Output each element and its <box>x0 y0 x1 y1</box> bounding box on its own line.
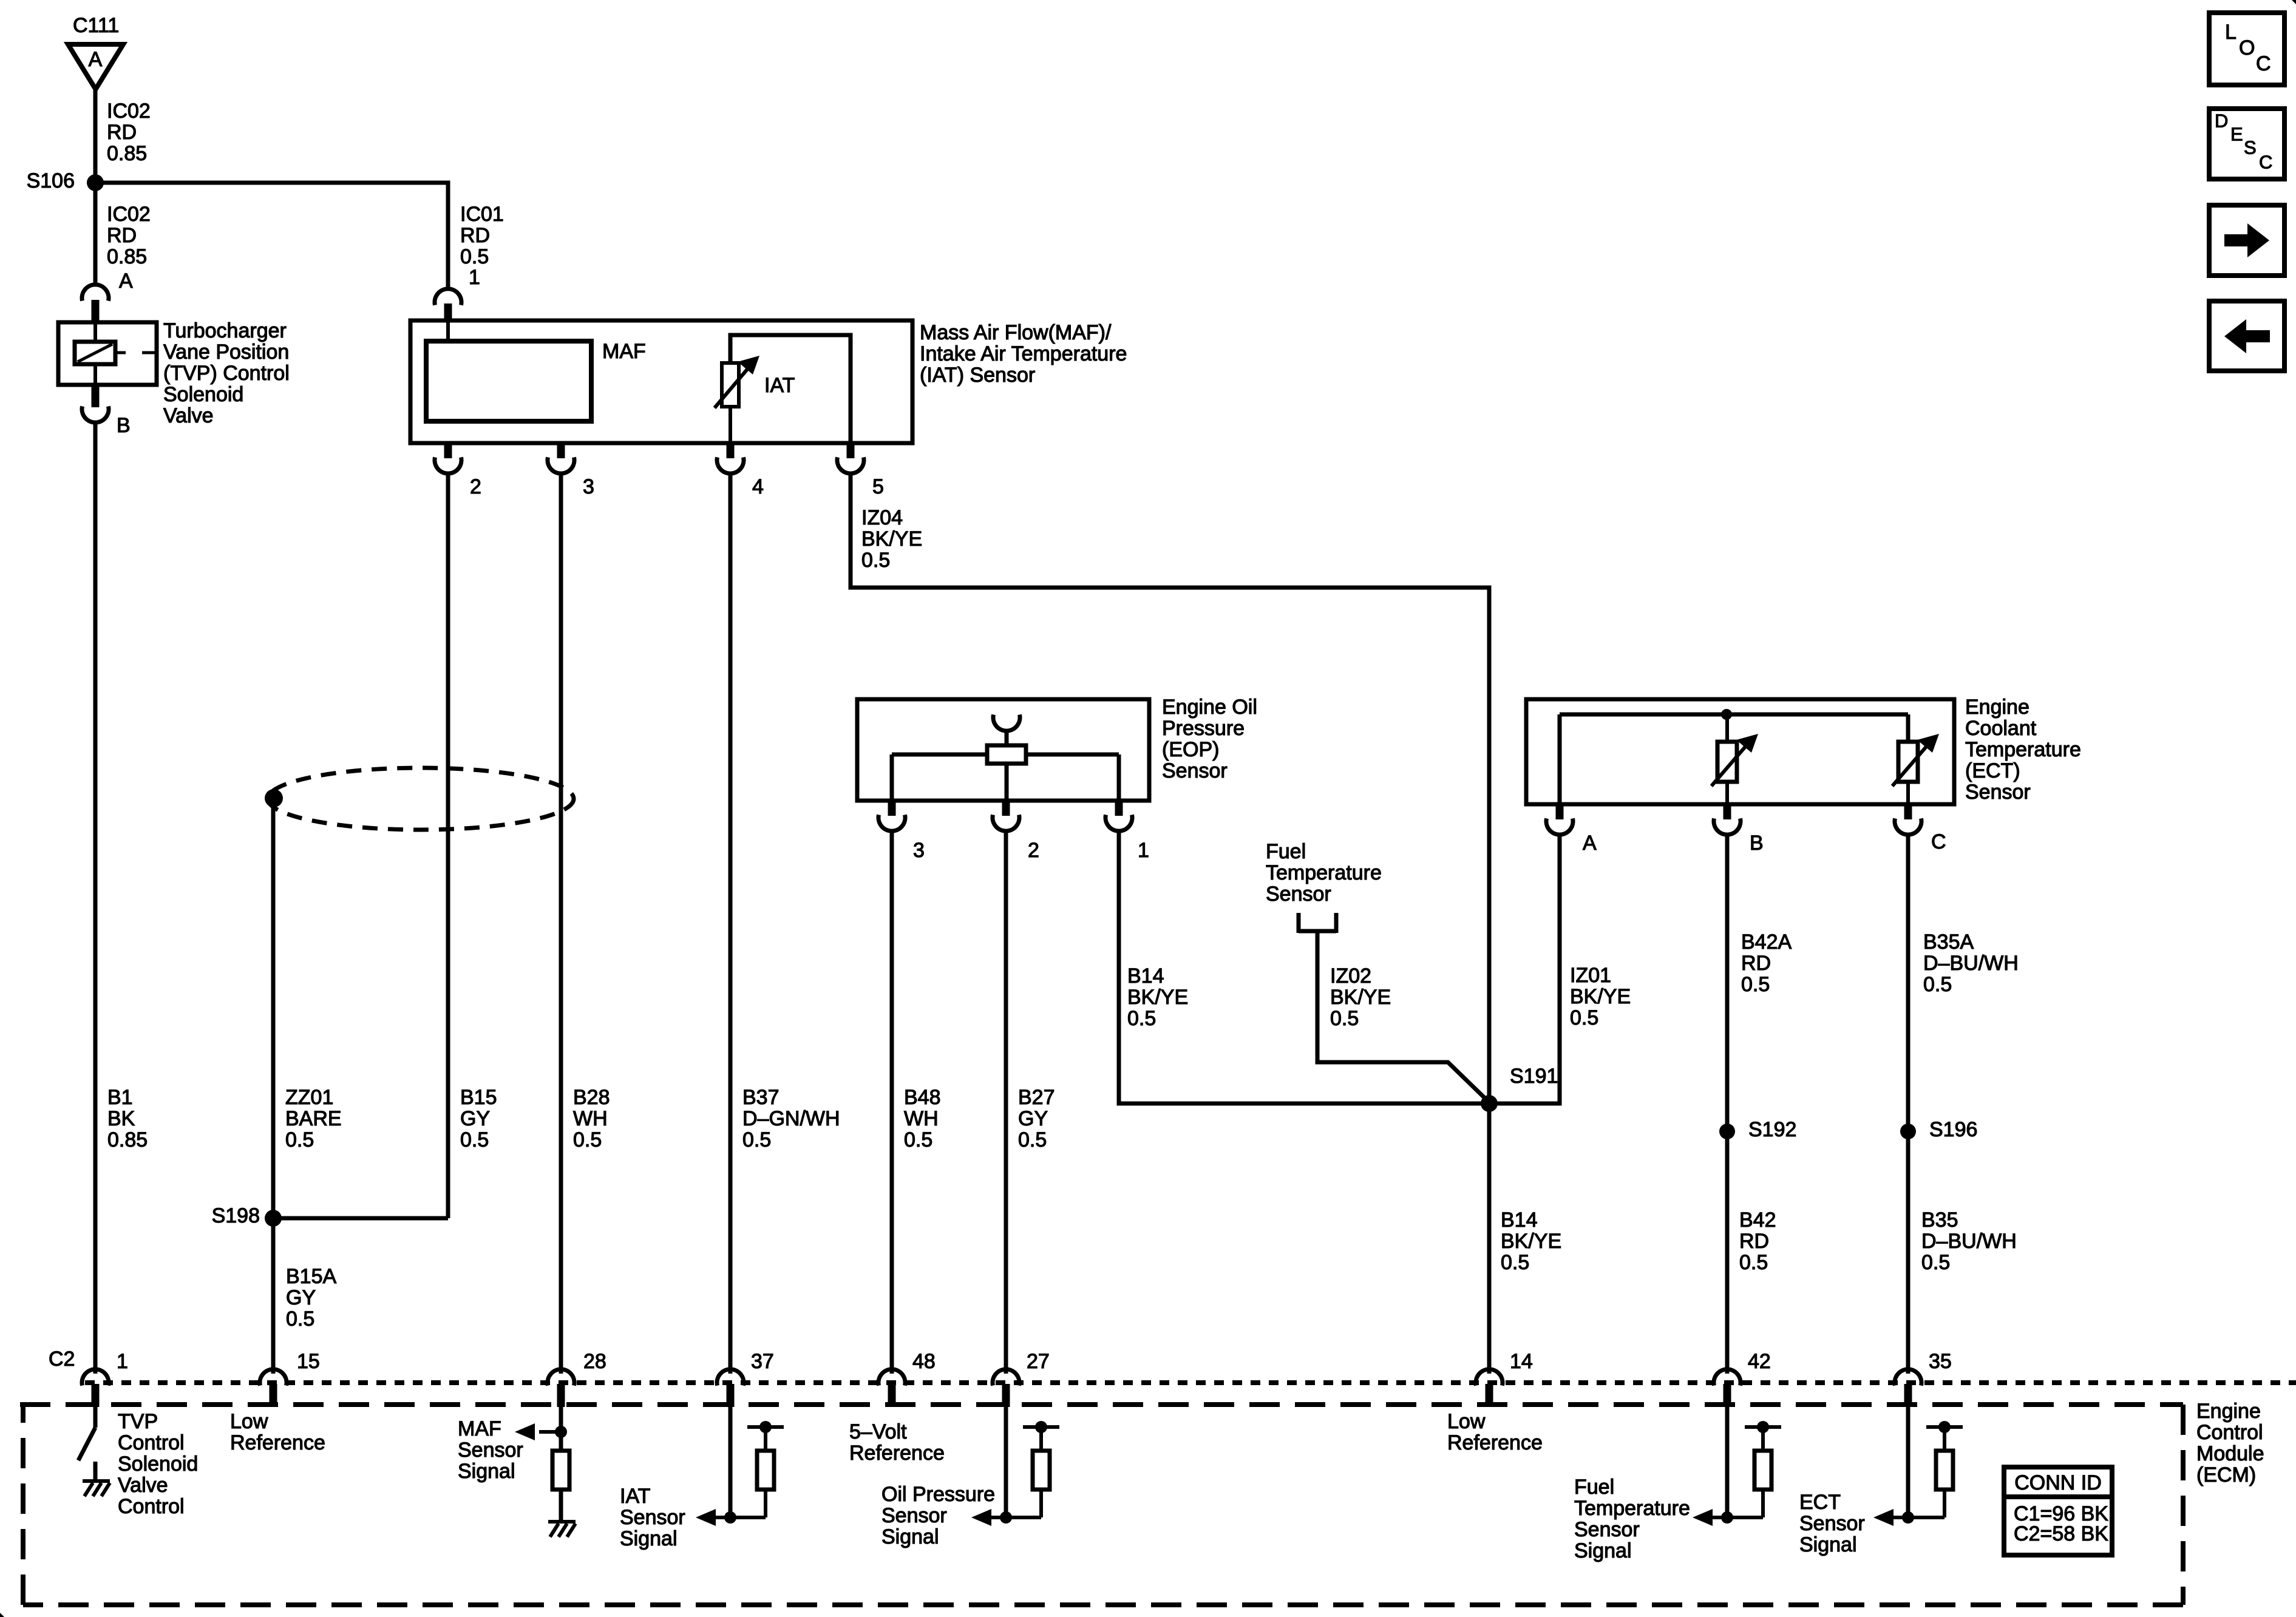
label IZ04 BK/YE 0.5 <box>861 506 922 572</box>
pin 3 of MAF sensor <box>548 443 594 498</box>
ECM pin 15 terminal <box>260 1350 320 1407</box>
ECM ECT signal wire <box>1906 1407 1911 1517</box>
svg-text:0.5: 0.5 <box>285 1128 314 1151</box>
label MAF Sensor Signal <box>458 1417 523 1483</box>
svg-text:Coolant: Coolant <box>1965 717 2037 740</box>
svg-text:S: S <box>2244 137 2257 158</box>
svg-text:TVP: TVP <box>118 1410 158 1433</box>
svg-text:Temperature: Temperature <box>1574 1497 1690 1520</box>
svg-text:4: 4 <box>752 475 764 498</box>
label B28 WH 0.5 <box>573 1086 610 1151</box>
svg-text:BK/YE: BK/YE <box>1501 1230 1561 1253</box>
svg-text:C111: C111 <box>73 14 119 37</box>
svg-text:Fuel: Fuel <box>1574 1476 1614 1499</box>
resistor fuel temp pull-up <box>1693 1421 1781 1526</box>
pin 1 of MAF sensor <box>435 266 480 320</box>
label C2 <box>49 1347 75 1371</box>
label IC02 RD 0.85 lower <box>107 203 151 268</box>
label IC01 RD 0.5 <box>460 203 504 268</box>
label B14 BK/YE 0.5 lower <box>1501 1209 1561 1274</box>
resistor oil pressure pull-up <box>971 1421 1059 1526</box>
pin B of ECT sensor <box>1714 804 1764 855</box>
label Oil Pressure Sensor Signal <box>881 1483 995 1548</box>
svg-text:C2=58 BK: C2=58 BK <box>2014 1522 2108 1545</box>
svg-text:Signal: Signal <box>881 1525 939 1548</box>
svg-text:B42: B42 <box>1739 1209 1776 1232</box>
ECM pin 35 terminal <box>1895 1350 1952 1407</box>
svg-text:Reference: Reference <box>849 1442 945 1465</box>
ECM pin 28 terminal <box>548 1350 606 1407</box>
label Low Reference (pin 14) <box>1447 1410 1543 1454</box>
icon LOC box <box>2209 13 2284 85</box>
svg-text:Solenoid: Solenoid <box>118 1453 198 1476</box>
wire B28 MAF pin 3 to ECM pin 28 <box>559 473 563 1374</box>
svg-text:Sensor: Sensor <box>1574 1518 1640 1541</box>
svg-text:1: 1 <box>469 266 480 289</box>
svg-text:Oil Pressure: Oil Pressure <box>881 1483 995 1506</box>
shield ellipse (twisted pair) <box>268 768 574 830</box>
svg-text:S198: S198 <box>212 1204 260 1227</box>
ground chassis (MAF load) <box>548 1490 576 1537</box>
svg-text:D–GN/WH: D–GN/WH <box>742 1107 840 1130</box>
pin A of ECT sensor <box>1546 804 1597 855</box>
svg-text:RD: RD <box>107 121 137 144</box>
shield drain connection dot <box>265 789 283 807</box>
svg-text:27: 27 <box>1027 1350 1050 1373</box>
wire B37 MAF pin 4 to ECM pin 37 <box>729 473 733 1374</box>
sensor EOP box <box>857 699 1149 801</box>
thermistor IAT <box>715 335 851 443</box>
svg-text:(IAT) Sensor: (IAT) Sensor <box>920 364 1035 387</box>
svg-text:IC02: IC02 <box>107 203 151 226</box>
icon back arrow box <box>2209 301 2284 371</box>
svg-text:ZZ01: ZZ01 <box>285 1086 333 1109</box>
wire B35A ECT pin C to ECM pin 35 <box>1906 834 1911 1374</box>
svg-text:Vane Position: Vane Position <box>163 341 289 364</box>
svg-text:D–BU/WH: D–BU/WH <box>1923 952 2019 975</box>
sensor ECT box <box>1526 699 1954 804</box>
svg-text:1: 1 <box>117 1350 128 1373</box>
label B37 D-GN/WH 0.5 <box>742 1086 840 1151</box>
ECM oil pressure signal wire <box>1004 1407 1008 1517</box>
svg-text:Reference: Reference <box>1447 1431 1543 1454</box>
svg-text:BARE: BARE <box>285 1107 342 1130</box>
ECM pin 27 terminal <box>993 1350 1050 1407</box>
icon forward arrow box <box>2209 205 2284 276</box>
svg-text:RD: RD <box>1739 1230 1769 1253</box>
wire B14 S191 to ECM pin 14 <box>1487 1103 1492 1374</box>
svg-text:C: C <box>1931 830 1946 853</box>
svg-text:BK/YE: BK/YE <box>861 527 922 551</box>
label B15A GY 0.5 <box>286 1265 336 1331</box>
resistor MAF load <box>552 1451 569 1490</box>
label Engine Oil Pressure (EOP) Sensor <box>1162 696 1257 782</box>
ECM pin 1 terminal <box>82 1350 128 1407</box>
svg-text:Sensor: Sensor <box>1266 883 1331 906</box>
svg-text:GY: GY <box>1018 1107 1048 1130</box>
EOP pressure port symbol <box>993 714 1020 745</box>
svg-text:RD: RD <box>1741 952 1771 975</box>
svg-text:A: A <box>119 269 133 293</box>
label B35 D-BU/WH 0.5 <box>1921 1209 2017 1274</box>
label 5-Volt Reference <box>849 1420 945 1465</box>
svg-text:A: A <box>1583 832 1597 855</box>
svg-text:0.5: 0.5 <box>460 1128 489 1151</box>
svg-text:2: 2 <box>1028 839 1039 862</box>
svg-text:(EOP): (EOP) <box>1162 738 1219 761</box>
svg-text:B37: B37 <box>742 1086 779 1109</box>
ECT internal junction <box>1721 709 1732 720</box>
node MAF signal junction <box>555 1426 567 1438</box>
ECM MAF signal wire <box>559 1407 563 1451</box>
svg-text:BK/YE: BK/YE <box>1127 986 1188 1009</box>
pin 3 of EOP sensor <box>878 801 925 862</box>
pin 5 of MAF sensor <box>837 443 884 498</box>
wire IC02 C111 to S106 <box>93 89 98 183</box>
svg-text:Signal: Signal <box>1574 1539 1632 1562</box>
svg-text:0.5: 0.5 <box>1921 1251 1950 1274</box>
svg-text:Signal: Signal <box>1799 1533 1857 1556</box>
wire ZZ01 shield to S198 <box>271 798 276 1218</box>
svg-text:0.5: 0.5 <box>1923 973 1952 996</box>
svg-text:35: 35 <box>1929 1350 1952 1373</box>
ECM TVP driver switch <box>78 1407 95 1460</box>
wire B27 EOP pin 2 to ECM pin 27 <box>1004 830 1008 1374</box>
resistor ECT pull-up <box>1873 1421 1963 1526</box>
svg-text:Low: Low <box>230 1410 268 1433</box>
wire IC01 S106 to MAF pin 1 <box>95 183 448 290</box>
svg-text:Control: Control <box>118 1495 185 1518</box>
label IZ01 BK/YE 0.5 <box>1570 964 1631 1029</box>
svg-text:B48: B48 <box>904 1086 941 1109</box>
svg-text:B35: B35 <box>1921 1209 1958 1232</box>
pin 4 of MAF sensor <box>717 443 764 498</box>
ECM dashed box <box>20 1405 2183 1605</box>
svg-text:B: B <box>117 414 131 437</box>
svg-text:Solenoid: Solenoid <box>163 383 243 406</box>
svg-text:Low: Low <box>1447 1410 1486 1433</box>
svg-text:Intake Air Temperature: Intake Air Temperature <box>920 342 1127 365</box>
label Fuel Temperature Sensor <box>1266 840 1382 906</box>
svg-text:Sensor: Sensor <box>458 1439 523 1462</box>
EOP sensing element <box>892 745 1119 801</box>
label B35A D-BU/WH 0.5 <box>1923 931 2019 996</box>
wire IC02 S106 to TVP pin A <box>93 183 98 285</box>
pin 2 of MAF sensor <box>435 443 481 498</box>
svg-text:IAT: IAT <box>764 374 795 397</box>
wire S198 to B15 column <box>273 1216 448 1221</box>
ECM pin 37 terminal <box>717 1350 774 1407</box>
label B42A RD 0.5 <box>1741 931 1792 996</box>
splice S192 <box>1719 1118 1796 1141</box>
svg-text:0.5: 0.5 <box>1570 1006 1598 1029</box>
svg-text:B28: B28 <box>573 1086 610 1109</box>
sensor Fuel Temperature symbol <box>1299 913 1336 933</box>
svg-text:Engine: Engine <box>2196 1400 2261 1423</box>
svg-text:Turbocharger: Turbocharger <box>163 319 287 342</box>
svg-text:C: C <box>2259 152 2272 173</box>
label B14 BK/YE 0.5 upper <box>1127 964 1188 1030</box>
solenoid valve TVP box <box>58 322 157 385</box>
svg-text:0.85: 0.85 <box>107 142 147 165</box>
icon DESC box <box>2209 109 2284 179</box>
svg-text:0.5: 0.5 <box>1018 1128 1047 1151</box>
svg-text:(ECM): (ECM) <box>2196 1463 2256 1486</box>
svg-text:5: 5 <box>872 475 884 498</box>
label IAT Sensor Signal <box>620 1485 685 1550</box>
svg-text:5–Volt: 5–Volt <box>849 1420 907 1443</box>
svg-text:2: 2 <box>470 475 481 498</box>
resistor IAT pull-up <box>696 1421 784 1526</box>
wire IZ01 ECT pin A to S191 <box>1489 834 1560 1103</box>
svg-text:0.5: 0.5 <box>861 549 890 572</box>
ECM pin 42 terminal <box>1714 1350 1771 1407</box>
svg-text:IC01: IC01 <box>460 203 504 226</box>
svg-text:RD: RD <box>460 224 490 247</box>
svg-text:B15A: B15A <box>286 1265 336 1288</box>
svg-text:Sensor: Sensor <box>881 1504 947 1527</box>
svg-text:0.5: 0.5 <box>573 1128 602 1151</box>
svg-text:0.85: 0.85 <box>107 245 147 268</box>
pin A of TVP solenoid <box>82 269 133 322</box>
label IC02 RD 0.85 upper <box>107 100 151 165</box>
svg-text:Valve: Valve <box>163 404 214 427</box>
svg-text:1: 1 <box>1138 839 1149 862</box>
arrow MAF sensor signal <box>515 1423 561 1440</box>
svg-text:S196: S196 <box>1929 1118 1977 1141</box>
svg-text:Reference: Reference <box>230 1431 325 1454</box>
svg-text:O: O <box>2239 36 2255 59</box>
wire B14 EOP pin 1 to S191 <box>1119 830 1489 1103</box>
thermistor ECT B <box>1711 714 1758 804</box>
svg-text:BK: BK <box>107 1107 135 1130</box>
svg-text:Signal: Signal <box>620 1527 678 1550</box>
label Turbocharger Vane Position (TVP) Control Solenoid Valve <box>163 319 290 427</box>
svg-text:Control: Control <box>118 1431 185 1454</box>
svg-text:37: 37 <box>751 1350 774 1373</box>
svg-text:0.5: 0.5 <box>904 1128 932 1151</box>
svg-text:0.5: 0.5 <box>1741 973 1770 996</box>
label Engine Coolant Temperature (ECT) Sensor <box>1965 696 2081 804</box>
svg-text:IZ02: IZ02 <box>1330 964 1371 988</box>
svg-text:Engine: Engine <box>1965 696 2029 719</box>
svg-text:15: 15 <box>297 1350 320 1373</box>
svg-text:(ECT): (ECT) <box>1965 759 2020 782</box>
svg-text:Sensor: Sensor <box>1162 759 1228 782</box>
svg-text:28: 28 <box>583 1350 606 1373</box>
connector C111 triangle symbol <box>68 44 123 89</box>
pin B of TVP solenoid <box>82 385 131 437</box>
svg-text:GY: GY <box>460 1107 490 1130</box>
svg-text:IC02: IC02 <box>107 100 151 123</box>
pin 1 of EOP sensor <box>1106 801 1149 862</box>
svg-text:(TVP) Control: (TVP) Control <box>163 362 290 385</box>
wire B1 TVP pin B to ECM pin 1 <box>93 422 98 1374</box>
svg-text:Sensor: Sensor <box>620 1506 685 1529</box>
svg-text:Module: Module <box>2196 1442 2264 1465</box>
svg-text:MAF: MAF <box>458 1417 501 1440</box>
svg-text:BK/YE: BK/YE <box>1330 986 1391 1009</box>
svg-text:0.5: 0.5 <box>460 245 489 268</box>
svg-text:IZ04: IZ04 <box>861 506 903 529</box>
ECM fuel temp signal wire <box>1725 1407 1730 1517</box>
splice S196 <box>1900 1118 1977 1141</box>
svg-text:MAF: MAF <box>602 340 646 363</box>
pin C of ECT sensor <box>1895 804 1946 853</box>
svg-text:3: 3 <box>583 475 594 498</box>
svg-text:IZ01: IZ01 <box>1570 964 1611 987</box>
ground chassis (TVP driver) <box>83 1462 110 1496</box>
svg-text:Temperature: Temperature <box>1266 861 1382 884</box>
wire B15A S198 to ECM pin 15 <box>271 1218 276 1374</box>
splice S191 <box>1481 1065 1558 1112</box>
label Engine Control Module (ECM) <box>2196 1400 2264 1486</box>
svg-text:0.85: 0.85 <box>107 1128 148 1151</box>
MAF element box <box>426 340 646 421</box>
svg-text:Valve: Valve <box>118 1474 168 1497</box>
svg-text:E: E <box>2230 124 2243 145</box>
svg-text:0.5: 0.5 <box>1739 1251 1768 1274</box>
svg-text:B35A: B35A <box>1923 931 1974 954</box>
svg-text:Sensor: Sensor <box>1965 781 2031 804</box>
ECM pin 14 terminal <box>1476 1350 1533 1407</box>
svg-text:GY: GY <box>286 1286 316 1309</box>
svg-text:Temperature: Temperature <box>1965 738 2081 761</box>
svg-text:0.5: 0.5 <box>1330 1007 1359 1030</box>
svg-text:Sensor: Sensor <box>1799 1512 1865 1535</box>
svg-text:0.5: 0.5 <box>286 1307 314 1331</box>
svg-text:CONN ID: CONN ID <box>2014 1471 2102 1494</box>
splice S106 <box>27 169 104 192</box>
label Low Reference (pin 15) <box>230 1410 325 1454</box>
svg-text:B1: B1 <box>107 1086 133 1109</box>
svg-text:0.5: 0.5 <box>742 1128 771 1151</box>
svg-text:Engine Oil: Engine Oil <box>1162 696 1257 719</box>
svg-text:ECT: ECT <box>1799 1491 1841 1514</box>
wire MAF pin2 internal <box>446 320 450 341</box>
svg-text:Control: Control <box>2196 1421 2263 1444</box>
wire B48 EOP pin 3 to ECM pin 48 <box>890 830 894 1374</box>
connector C2 dotted line <box>85 1380 2296 1385</box>
label Fuel Temperature Sensor Signal <box>1574 1476 1690 1562</box>
label B42 RD 0.5 <box>1739 1209 1776 1274</box>
svg-text:C2: C2 <box>49 1347 75 1371</box>
thermistor ECT C <box>1892 714 1939 804</box>
splice S198 <box>212 1204 282 1227</box>
svg-text:B14: B14 <box>1127 964 1164 988</box>
svg-text:42: 42 <box>1748 1350 1771 1373</box>
svg-text:B: B <box>1750 832 1764 855</box>
label ZZ01 BARE 0.5 <box>285 1086 342 1151</box>
svg-text:BK/YE: BK/YE <box>1570 985 1631 1008</box>
connector C111 label <box>73 14 119 37</box>
svg-text:D–BU/WH: D–BU/WH <box>1921 1230 2017 1253</box>
svg-text:B42A: B42A <box>1741 931 1792 954</box>
svg-text:WH: WH <box>573 1107 608 1130</box>
label B1 BK 0.85 <box>107 1086 148 1151</box>
label B48 WH 0.5 <box>904 1086 941 1151</box>
svg-text:Signal: Signal <box>458 1460 515 1483</box>
CONN ID table <box>2004 1467 2112 1555</box>
svg-text:0.5: 0.5 <box>1127 1007 1156 1030</box>
svg-text:IAT: IAT <box>620 1485 650 1508</box>
label Mass Air Flow (MAF)/Intake Air Temperature (IAT) Sensor <box>920 321 1127 387</box>
svg-text:48: 48 <box>912 1350 936 1373</box>
label B27 GY 0.5 <box>1018 1086 1055 1151</box>
wire B15 MAF pin 2 to S198 <box>446 473 450 1218</box>
svg-text:14: 14 <box>1510 1350 1533 1373</box>
svg-text:Pressure: Pressure <box>1162 717 1245 740</box>
wire IZ04 MAF pin 5 to S191 <box>851 473 1489 1103</box>
svg-text:B15: B15 <box>460 1086 497 1109</box>
svg-text:C: C <box>2256 52 2271 75</box>
svg-text:L: L <box>2225 21 2237 44</box>
svg-text:B27: B27 <box>1018 1086 1055 1109</box>
svg-text:S192: S192 <box>1748 1118 1796 1141</box>
svg-text:Mass Air Flow(MAF)/: Mass Air Flow(MAF)/ <box>920 321 1112 344</box>
ECT internal bus <box>1560 714 1908 804</box>
svg-text:A: A <box>89 48 103 71</box>
svg-text:0.5: 0.5 <box>1501 1251 1529 1274</box>
svg-text:3: 3 <box>913 839 925 862</box>
label B15 GY 0.5 <box>460 1086 497 1151</box>
svg-text:RD: RD <box>107 224 137 247</box>
svg-text:B14: B14 <box>1501 1209 1538 1232</box>
svg-text:WH: WH <box>904 1107 939 1130</box>
ECM pin 48 terminal <box>878 1350 936 1407</box>
label TVP Control Solenoid Valve Control <box>118 1410 198 1518</box>
label IZ02 BK/YE 0.5 <box>1330 964 1391 1030</box>
sensor MAF/IAT outer box <box>410 320 912 443</box>
svg-text:Fuel: Fuel <box>1266 840 1306 863</box>
label ECT Sensor Signal <box>1799 1491 1865 1556</box>
svg-text:S191: S191 <box>1510 1065 1558 1088</box>
svg-text:D: D <box>2215 110 2228 132</box>
svg-text:S106: S106 <box>27 169 75 192</box>
page corner mark top-right <box>2292 0 2296 4</box>
pin 2 of EOP sensor <box>993 801 1039 862</box>
wire IZ02 fuel temp sensor to S191 <box>1317 933 1489 1102</box>
ECM IAT signal wire <box>729 1407 733 1517</box>
wire B42A ECT pin B to ECM pin 42 <box>1725 834 1730 1374</box>
page corner mark bottom-left <box>0 1613 4 1617</box>
